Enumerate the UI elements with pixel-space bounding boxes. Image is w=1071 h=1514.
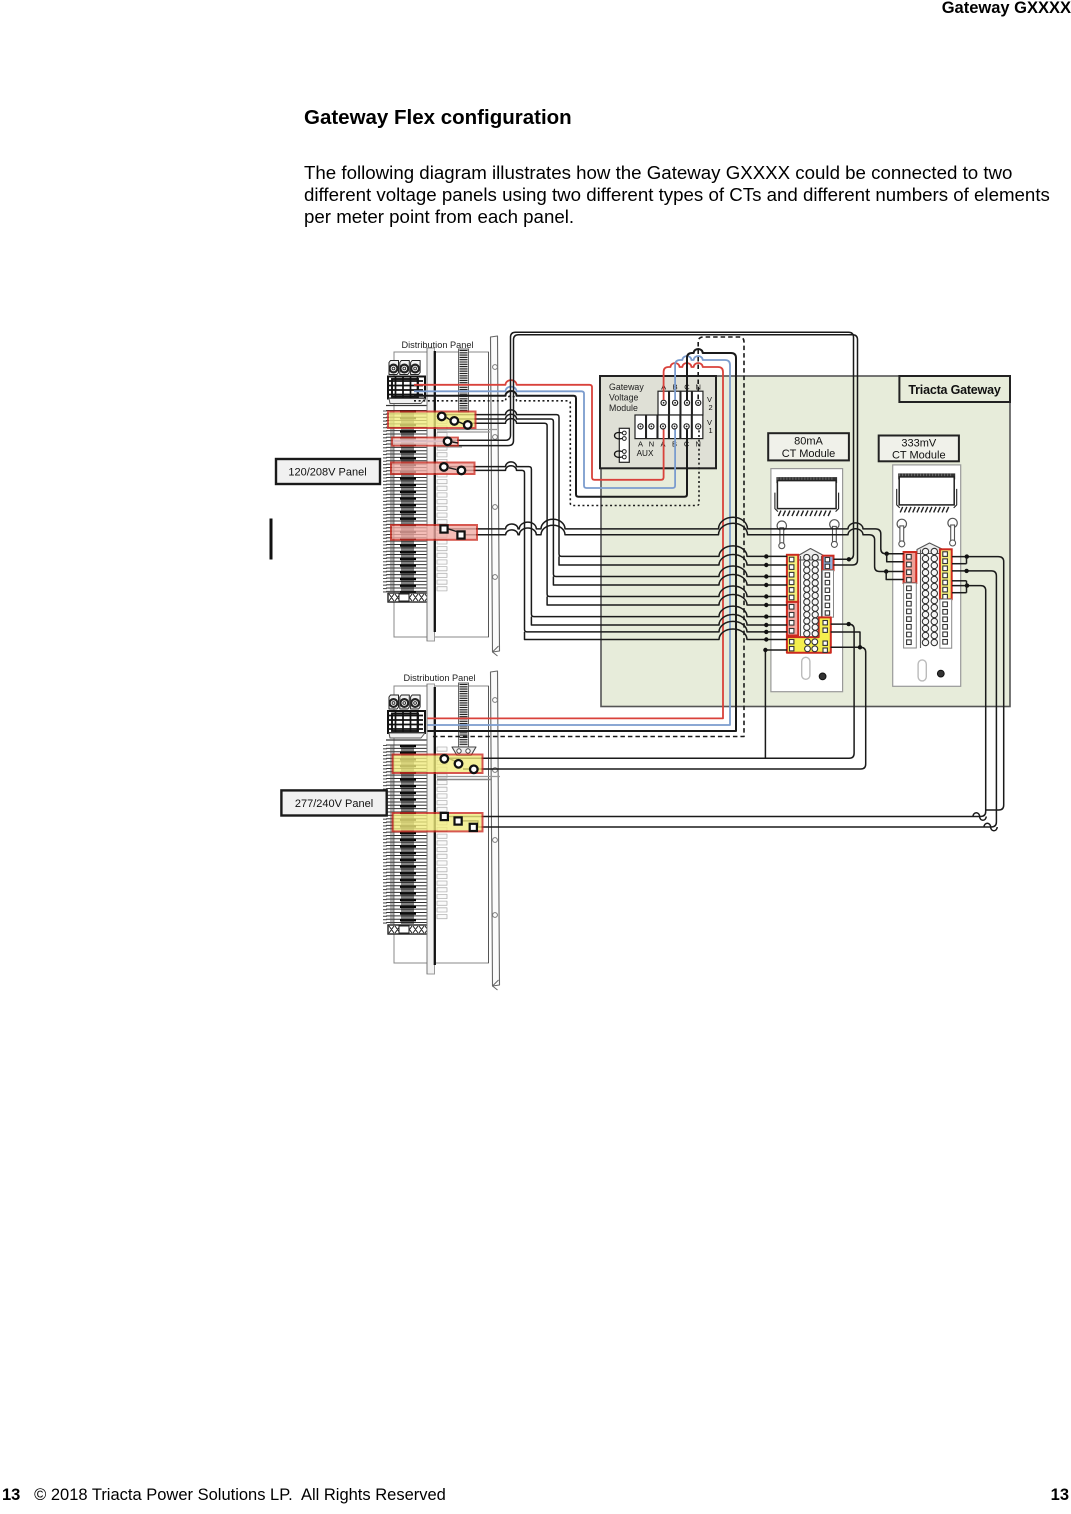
svg-text:Distribution Panel: Distribution Panel bbox=[401, 340, 473, 350]
svg-text:AUX: AUX bbox=[637, 449, 654, 458]
svg-text:333mV: 333mV bbox=[901, 438, 937, 450]
svg-text:Module: Module bbox=[609, 403, 638, 413]
svg-text:A: A bbox=[638, 440, 643, 449]
svg-text:Distribution Panel: Distribution Panel bbox=[403, 673, 475, 683]
svg-text:2: 2 bbox=[709, 403, 713, 412]
svg-text:CT Module: CT Module bbox=[782, 448, 836, 460]
svg-text:CT Module: CT Module bbox=[892, 450, 946, 462]
svg-text:Triacta Gateway: Triacta Gateway bbox=[908, 383, 1000, 397]
svg-text:120/208V Panel: 120/208V Panel bbox=[288, 467, 366, 479]
svg-text:277/240V Panel: 277/240V Panel bbox=[295, 798, 373, 810]
svg-text:Gateway: Gateway bbox=[609, 382, 644, 392]
svg-text:Voltage: Voltage bbox=[609, 393, 638, 403]
svg-text:1: 1 bbox=[709, 426, 713, 435]
svg-text:80mA: 80mA bbox=[794, 436, 823, 448]
svg-text:N: N bbox=[649, 440, 654, 449]
